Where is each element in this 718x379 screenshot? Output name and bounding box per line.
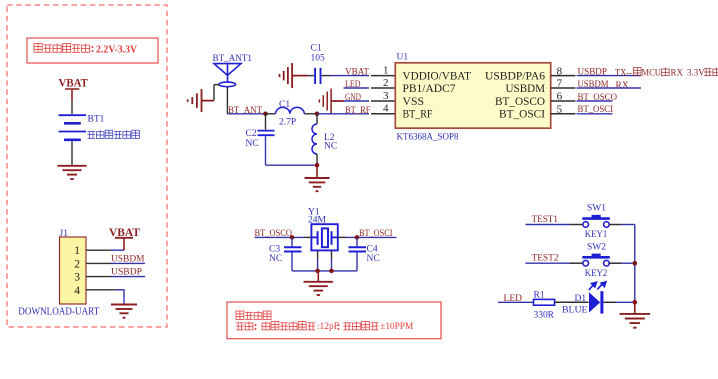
svg-text:GND: GND	[345, 93, 361, 103]
svg-text:NC: NC	[269, 254, 282, 264]
svg-text:TEST1: TEST1	[532, 215, 559, 225]
svg-text:VDDIO/VBAT: VDDIO/VBAT	[403, 71, 472, 83]
svg-text:C2: C2	[246, 129, 257, 139]
svg-text:USBDM: USBDM	[506, 83, 546, 95]
svg-text:C1: C1	[279, 100, 290, 110]
svg-text:3: 3	[383, 90, 389, 102]
svg-text:2: 2	[74, 258, 80, 270]
svg-text:±10PPM: ±10PPM	[380, 322, 414, 332]
svg-text:DOWNLOAD-UART: DOWNLOAD-UART	[18, 306, 99, 318]
svg-text:TEST2: TEST2	[532, 254, 559, 264]
svg-text:2.2V-3.3V: 2.2V-3.3V	[96, 44, 137, 55]
svg-text:4: 4	[74, 285, 80, 297]
svg-text:BT_OSCI: BT_OSCI	[359, 229, 393, 239]
svg-text:BT_OSCI: BT_OSCI	[499, 109, 545, 121]
svg-text:7: 7	[557, 78, 563, 90]
svg-text:U1: U1	[397, 53, 409, 63]
svg-text:1: 1	[383, 65, 389, 77]
svg-text:KT6368A_SOP8: KT6368A_SOP8	[397, 131, 459, 142]
svg-text:R1: R1	[534, 291, 545, 301]
svg-text::12pF: :12pF	[317, 322, 339, 332]
svg-text:USBDP/PA6: USBDP/PA6	[485, 71, 545, 83]
svg-text:C3: C3	[269, 244, 280, 254]
svg-text:3: 3	[74, 272, 80, 284]
svg-text:LED: LED	[345, 80, 361, 90]
svg-text:BT_OSCO: BT_OSCO	[495, 96, 545, 108]
svg-text:8: 8	[557, 65, 563, 77]
svg-text:MCU: MCU	[642, 67, 662, 77]
svg-text:BT_RF: BT_RF	[403, 109, 433, 121]
svg-text:PB1/ADC7: PB1/ADC7	[403, 83, 456, 95]
svg-text:VBAT: VBAT	[345, 67, 369, 77]
svg-text:6: 6	[557, 91, 563, 103]
svg-text:BT_OSCO: BT_OSCO	[255, 229, 293, 239]
svg-text:NC: NC	[246, 139, 259, 149]
svg-text:NC: NC	[324, 141, 337, 151]
svg-text:5: 5	[557, 104, 563, 116]
svg-text:4: 4	[383, 103, 389, 115]
svg-text:SW1: SW1	[587, 204, 606, 214]
svg-text:105: 105	[311, 54, 326, 64]
svg-text:2: 2	[383, 77, 389, 89]
svg-text:BLUE: BLUE	[562, 305, 588, 315]
svg-text:BT_ANT1: BT_ANT1	[213, 54, 253, 64]
svg-text:KEY1: KEY1	[585, 230, 608, 240]
svg-text:RX: RX	[616, 81, 629, 91]
svg-text:C1: C1	[311, 44, 322, 54]
svg-text:3.3V: 3.3V	[687, 67, 705, 77]
svg-text:BT1: BT1	[88, 115, 105, 125]
svg-text:C4: C4	[367, 244, 378, 254]
svg-text:BT_RF: BT_RF	[345, 106, 371, 116]
svg-text:2.7P: 2.7P	[279, 118, 296, 128]
svg-text:VBAT: VBAT	[58, 77, 88, 89]
svg-text:RX: RX	[671, 67, 684, 77]
svg-text:NC: NC	[367, 254, 380, 264]
svg-text:KEY2: KEY2	[585, 269, 608, 279]
svg-text:USBDM: USBDM	[111, 254, 145, 264]
svg-text:1: 1	[74, 245, 80, 257]
svg-text:SW2: SW2	[587, 242, 606, 252]
svg-text:USBDP: USBDP	[111, 268, 142, 278]
svg-text:D1: D1	[575, 294, 587, 304]
svg-text:TX--: TX--	[615, 67, 632, 77]
svg-text:VSS: VSS	[403, 96, 425, 108]
svg-text:330R: 330R	[534, 311, 555, 321]
